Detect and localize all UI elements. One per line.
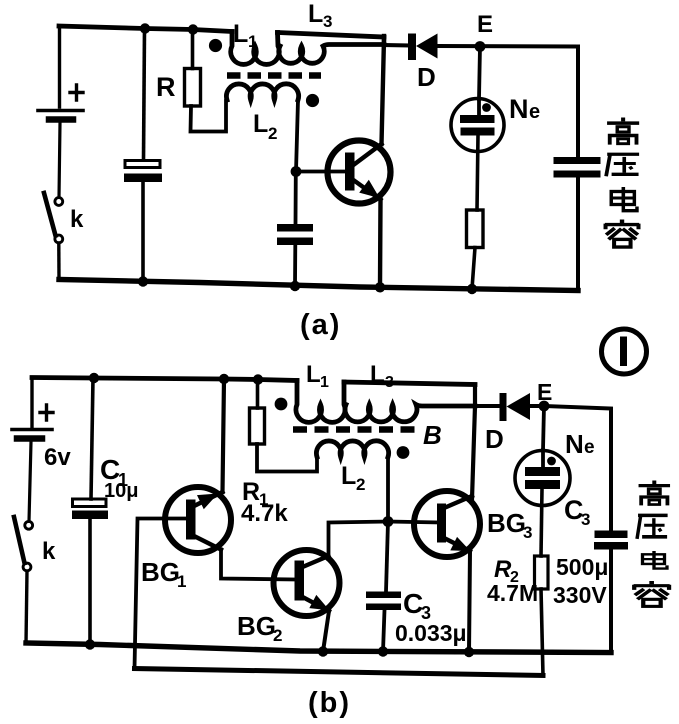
resistor (a) below neon lamp xyxy=(467,210,484,248)
inductor L3 (a) winding xyxy=(279,45,384,64)
wire: L2 right leg to base node (a) xyxy=(296,100,298,172)
capacitor high-voltage (a) top plate xyxy=(554,157,601,164)
neon lamp Ne (a) top electrode stub xyxy=(477,99,481,119)
label: Chinese high-voltage capacitor text (b), char 4 xyxy=(634,581,670,606)
node: base junction (a) xyxy=(291,166,302,177)
neon lamp Ne (a) dot xyxy=(482,103,491,112)
svg-text:E: E xyxy=(537,379,552,405)
transformer core (b) dashed xyxy=(293,426,415,433)
wire: right vertical down from E line (a) xyxy=(576,47,580,158)
wire: switch to bottom rail (a) xyxy=(57,243,61,280)
transformer phase dot L1 (b) xyxy=(275,398,288,411)
transistor BG2 (b) emitter lead xyxy=(303,597,330,611)
capacitor high-voltage (a) bottom plate xyxy=(554,171,601,178)
diode D (a) cathode bar xyxy=(408,34,416,61)
wire: C3 500u to bottom rail corner (b) xyxy=(609,550,613,653)
wire: BG3 emitter down to bottom rail (b) xyxy=(469,551,470,652)
capacitor C1 (b) solid bottom plate xyxy=(72,511,108,520)
wire: transformer top bridge line L3 (b) xyxy=(344,382,475,385)
battery 6V (b) negative short plate xyxy=(17,435,42,442)
label: Chinese high-voltage capacitor text (a), char 4 xyxy=(605,220,639,248)
transistor Q (a) collector lead xyxy=(352,144,382,166)
battery B (a) negative short plate xyxy=(49,116,73,123)
svg-text:k: k xyxy=(42,538,56,565)
battery 6V (b) positive long plate xyxy=(12,428,52,432)
svg-text:(a): (a) xyxy=(300,309,341,341)
transistor BG1 (b) emitter lead xyxy=(194,536,221,550)
svg-text:3: 3 xyxy=(323,12,332,31)
svg-text:R: R xyxy=(156,72,176,102)
resistor R2 (b) body xyxy=(535,556,549,589)
svg-text:D: D xyxy=(417,62,436,92)
capacitor C1 (b) hollow top plate xyxy=(73,499,107,507)
transistor BG3 (b) emitter arrow xyxy=(452,539,468,550)
wire: transformer right vertical down to BG3 collector (b) xyxy=(472,385,475,500)
transistor BG2 (b) base bar xyxy=(295,561,305,601)
capacitor C3 500u (b) top plate xyxy=(595,531,628,539)
inductor L1 (a) winding with left descent xyxy=(231,32,280,65)
svg-text:2: 2 xyxy=(356,475,365,494)
wire: diode to node E (b) xyxy=(530,404,544,408)
transformer phase dot L1 (a) xyxy=(209,39,222,52)
wire: bottom rail (b) xyxy=(26,643,611,653)
capacitor C3 500u (b) bottom plate xyxy=(594,542,628,550)
wire: E down to neon lamp (b) xyxy=(543,406,544,450)
svg-text:3: 3 xyxy=(385,374,394,391)
diode D (b) cathode bar xyxy=(500,393,507,421)
node: bottom rail junction at C (a) left xyxy=(138,276,148,286)
neon lamp Ne (b) top electrode stub xyxy=(541,450,545,471)
node: bottom rail junction at C3 (b) xyxy=(378,646,388,656)
wire: base node left to BG2 collector (b) xyxy=(329,522,389,560)
node: bottom rail junction at BG3 emitter (b) xyxy=(464,647,474,657)
transistor BG1 (b) collector arrow xyxy=(199,495,215,507)
svg-text:N: N xyxy=(565,429,584,459)
capacitor C (a) left, hollow top plate xyxy=(125,161,160,168)
transistor BG1 (b) circle xyxy=(165,487,231,553)
wire: top rail (b) xyxy=(32,378,297,381)
resistor R1 (b) body xyxy=(250,408,265,444)
wire: R1 top lead (b) xyxy=(256,380,260,409)
wire: switch to bottom rail (b) xyxy=(26,571,27,644)
svg-text:4.7k: 4.7k xyxy=(241,500,288,527)
wire: R1 bottom lead down, right and up to L2 (b) xyxy=(257,444,317,472)
svg-text:N: N xyxy=(509,94,529,124)
svg-text:E: E xyxy=(477,11,493,38)
wire: left vertical from top rail to battery xyxy=(58,26,61,107)
svg-text:1: 1 xyxy=(177,572,186,591)
svg-text:B: B xyxy=(423,420,442,450)
wire: BG2 emitter down to bottom rail (b) xyxy=(323,611,329,652)
node: bottom rail junction at BG2 emitter (b) xyxy=(318,646,328,656)
svg-text:3: 3 xyxy=(581,510,590,529)
wire: top rail (a) xyxy=(59,26,232,32)
svg-text:BG: BG xyxy=(141,557,180,587)
transistor BG2 (b) emitter arrow xyxy=(311,597,327,609)
svg-text:D: D xyxy=(485,424,504,454)
transistor Q (a) circle xyxy=(328,141,391,204)
svg-text:4.7M: 4.7M xyxy=(487,580,538,606)
node E (a) xyxy=(475,41,486,52)
node: junction on top rail at capacitor branch xyxy=(140,23,150,33)
label: Chinese high-voltage capacitor text (a), char 1 xyxy=(607,118,639,145)
wire: neon lamp to resistor (a) xyxy=(477,136,478,211)
wire: BG1 base wire and vertical down (b) xyxy=(135,519,187,669)
switch k (a) top contact xyxy=(55,198,63,206)
wire: base node to BG3 (b) xyxy=(388,522,439,523)
wire: bottom rail (a) xyxy=(59,280,578,291)
wire: L2 right leg down to base node (b) xyxy=(386,457,390,522)
wire: feedback capacitor to bottom rail (a) xyxy=(293,245,297,286)
neon lamp Ne (b) lower electrode xyxy=(525,480,560,489)
inductor L1 (b) winding with left descent xyxy=(296,381,345,423)
wire: base node down to feedback capacitor (a) xyxy=(294,172,298,225)
wire: base wire into transistor (a) xyxy=(296,170,346,174)
transistor BG3 (b) circle xyxy=(414,491,480,557)
wire: filter capacitor top lead (a) xyxy=(144,29,145,161)
label: Chinese high-voltage capacitor text (a), char 2 xyxy=(606,154,639,176)
wire: C1 top lead (b) xyxy=(91,378,93,499)
svg-text:e: e xyxy=(529,101,540,123)
wire: to diode anode (a) xyxy=(384,43,409,48)
wire: C1 bottom lead (b) xyxy=(88,519,92,645)
capacitor C3 0.033 (b) top plate xyxy=(366,592,401,599)
node: bottom rail junction at Ne resistor (a) xyxy=(467,284,477,294)
transistor BG2 (b) collector lead xyxy=(303,556,329,567)
wire: R top lead (a) xyxy=(191,30,195,69)
svg-text:0.033μ: 0.033μ xyxy=(395,620,467,646)
svg-text:6v: 6v xyxy=(44,444,71,471)
diode D (b) triangle xyxy=(507,393,531,420)
svg-text:330V: 330V xyxy=(553,582,607,608)
transistor BG1 (b) base bar xyxy=(186,500,196,540)
svg-text:500μ: 500μ xyxy=(556,554,608,580)
switch k (b) top contact xyxy=(25,521,33,529)
switch k (a) bottom contact xyxy=(55,235,63,243)
label: Chinese high-voltage capacitor text (b), char 1 xyxy=(639,481,671,506)
wire: BG1 emitter down to BG2 base (b) xyxy=(221,550,295,580)
svg-text:L: L xyxy=(341,462,356,490)
neon lamp Ne (a) lower electrode xyxy=(461,128,495,136)
svg-text:L: L xyxy=(370,361,385,388)
neon lamp Ne (a) envelope xyxy=(451,99,504,152)
wire: filter capacitor bottom lead (a) xyxy=(141,182,145,282)
neon lamp Ne (a) upper electrode xyxy=(460,115,495,123)
wire: emitter vertical down to bottom rail (a) xyxy=(378,200,383,288)
svg-text:2: 2 xyxy=(268,124,277,143)
figure number 1 bar xyxy=(620,337,627,367)
svg-text:L: L xyxy=(306,361,321,388)
svg-text:3: 3 xyxy=(523,523,532,542)
svg-text:L: L xyxy=(308,0,323,28)
node: top rail junction at BG1 collector (b) xyxy=(219,374,229,384)
svg-text:2: 2 xyxy=(273,626,282,645)
diode D (a) triangle xyxy=(416,34,438,59)
capacitor C (a) middle bottom plate xyxy=(277,238,313,246)
svg-text:L: L xyxy=(233,20,248,48)
wire: R bottom lead down, right and up to L2 (a) xyxy=(191,101,227,132)
neon lamp Ne (b) envelope xyxy=(515,451,570,506)
transistor BG3 (b) collector lead xyxy=(444,496,472,508)
label: Chinese high-voltage capacitor text (b), char 3 xyxy=(643,551,668,569)
wire: high-voltage capacitor to bottom rail (a) xyxy=(576,178,580,291)
inductor L2 (a) winding xyxy=(226,84,298,100)
node: junction on top rail at R branch xyxy=(188,24,198,34)
inductor L2 (b) winding xyxy=(316,441,388,457)
node: bottom rail junction at C (a) middle xyxy=(290,281,300,291)
label: + polarity (a) xyxy=(70,85,83,100)
svg-text:1: 1 xyxy=(248,32,257,51)
transistor BG2 (b) circle xyxy=(274,550,340,616)
node: top rail junction at R1 (b) xyxy=(253,374,263,384)
node: bottom rail junction at C1 (b) xyxy=(85,639,95,649)
svg-text:k: k xyxy=(70,206,84,233)
svg-text:(b): (b) xyxy=(308,687,351,719)
wire: battery to switch (b) xyxy=(29,442,31,521)
wire: neon lamp to R2 (b) xyxy=(541,489,542,556)
wire: lower return line BG1 base to R2 (b) xyxy=(135,669,544,676)
wire: battery to switch (a) xyxy=(59,123,60,197)
svg-text:BG: BG xyxy=(487,508,526,538)
wire: diode to node E and right corner (a) xyxy=(438,44,579,49)
svg-text:L: L xyxy=(253,110,268,138)
neon lamp Ne (b) dot xyxy=(547,457,556,466)
wire: C3 0.033 to bottom rail (b) xyxy=(383,610,385,652)
svg-text:10μ: 10μ xyxy=(104,480,138,502)
svg-text:BG: BG xyxy=(237,611,276,641)
transistor BG3 (b) base bar xyxy=(437,504,446,543)
wire: R2 bottom lead crossing rail to lower line (b) xyxy=(541,589,543,676)
inductor L3 (b) winding xyxy=(345,405,475,422)
figure number circle 1 xyxy=(602,329,647,374)
switch k (b) blade xyxy=(14,517,25,563)
transistor BG1 (b) collector lead xyxy=(194,492,223,506)
wire: transformer top bridge line L3 (a) xyxy=(278,33,385,38)
wire: E down to neon lamp (a) xyxy=(479,47,480,100)
wire: transformer corner vertical (a) xyxy=(382,36,386,45)
wire: E right to corner and down (b) xyxy=(544,406,611,531)
switch k (a) blade xyxy=(44,193,56,236)
switch k (b) bottom contact xyxy=(23,563,31,571)
transistor BG3 (b) emitter lead xyxy=(444,538,470,551)
battery B (a) positive long plate xyxy=(38,109,83,113)
svg-text:1: 1 xyxy=(320,374,329,391)
node: BG3 base junction (b) xyxy=(383,516,394,527)
wire: base node down to C3 capacitor (b) xyxy=(386,522,388,592)
capacitor C (a) left, solid bottom plate xyxy=(124,174,162,183)
wire: collector vertical up to transformer corner (a) xyxy=(382,38,385,144)
node E (b) xyxy=(539,401,550,412)
label: Chinese high-voltage capacitor text (b), char 2 xyxy=(637,515,668,539)
wire: BG1 collector vertical to top rail (b) xyxy=(223,379,225,492)
svg-text:e: e xyxy=(584,437,595,458)
transistor Q (a) emitter lead xyxy=(352,179,381,200)
label: Chinese high-voltage capacitor text (a), char 3 xyxy=(611,187,637,211)
label: + polarity (b) xyxy=(40,405,53,420)
node: bottom rail junction at transistor emitter (a) xyxy=(375,282,385,292)
resistor R (a) body xyxy=(185,69,201,107)
wire: to diode anode (b) xyxy=(475,404,499,408)
capacitor C (a) middle top plate xyxy=(277,224,313,232)
capacitor C3 0.033 (b) bottom plate xyxy=(366,604,401,611)
neon lamp Ne (b) upper electrode xyxy=(525,467,560,476)
node: top rail junction at C1 (b) xyxy=(89,373,99,383)
wire: resistor to bottom rail (a) xyxy=(472,248,475,290)
transformer core (a) dashed xyxy=(227,72,321,79)
transformer phase dot L2 (a) xyxy=(306,94,319,107)
transistor Q (a) emitter arrow xyxy=(361,182,378,197)
transistor Q (a) base bar xyxy=(345,153,355,191)
wire: left vertical to battery (b) xyxy=(30,378,33,428)
transformer phase dot L2 (b) xyxy=(397,446,410,459)
